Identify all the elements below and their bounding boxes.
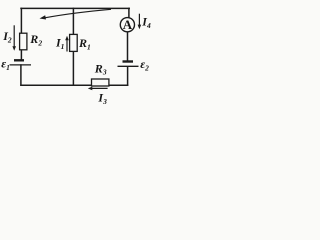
- resistor R2: [20, 32, 43, 50]
- resistor R3: [92, 61, 109, 86]
- wire right branch lower corner: [127, 67, 129, 85]
- battery cell E2: [118, 57, 150, 72]
- wire middle branch upper: [72, 8, 74, 34]
- current arrow I3: [88, 87, 108, 106]
- battery cell E1: [1, 56, 31, 71]
- wire left branch upper: [20, 8, 22, 33]
- wire right branch battery to ammeter: [127, 32, 129, 61]
- wire bottom rail left segment: [21, 84, 92, 86]
- svg-text:A: A: [123, 17, 133, 32]
- wire right branch ammeter to top rail: [128, 8, 130, 17]
- current arrow I1: [55, 36, 69, 52]
- wire bottom rail right segment: [109, 84, 128, 86]
- wire left branch R2 to battery: [20, 50, 22, 60]
- current arrow I2: [2, 25, 16, 51]
- wire top rail: [21, 7, 129, 9]
- wire middle branch lower: [72, 51, 74, 85]
- wire left branch battery to bottom: [20, 65, 22, 85]
- ammeter A: [120, 17, 134, 32]
- current arrow I4: [138, 14, 151, 30]
- resistor R1: [70, 34, 91, 51]
- loop direction curved arrow: [40, 9, 112, 19]
